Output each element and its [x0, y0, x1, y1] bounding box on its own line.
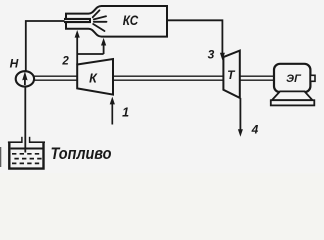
- duct arrow into chamber neck: [75, 30, 80, 65]
- svg-text:2: 2: [61, 55, 69, 67]
- generator EG body: [274, 64, 310, 92]
- shaft pump-compressor: [34, 76, 78, 80]
- fuel tank: [8, 137, 45, 169]
- duct connector: [77, 53, 103, 55]
- line chamber to turbine: [167, 20, 222, 53]
- pump N circle: [16, 71, 34, 86]
- svg-text:ЭГ: ЭГ: [286, 73, 302, 85]
- shaft turbine-generator: [240, 76, 274, 80]
- pump arrow: [22, 71, 27, 85]
- duct arrow into chamber bottom: [101, 38, 106, 54]
- svg-text:1: 1: [122, 106, 129, 120]
- fuel line pump to burner: [26, 21, 65, 72]
- shaft compressor-turbine: [113, 76, 223, 80]
- turbine T: [223, 51, 239, 98]
- svg-text:Н: Н: [10, 56, 19, 70]
- scan edge streak: [0, 147, 1, 167]
- pipe pump to tank: [24, 86, 26, 152]
- arrow 4 exhaust: [238, 98, 243, 137]
- combustion chamber KC body: [66, 6, 167, 37]
- svg-text:Топливо: Топливо: [51, 145, 112, 163]
- svg-text:К: К: [89, 72, 98, 86]
- flame rays: [93, 10, 107, 31]
- compressor K: [77, 59, 113, 95]
- burner tube: [64, 18, 91, 23]
- svg-text:3: 3: [208, 48, 215, 62]
- generator base plate: [271, 100, 315, 105]
- tank liquid: [11, 149, 44, 164]
- arrow 1 inlet: [110, 97, 115, 125]
- svg-text:КС: КС: [123, 13, 139, 28]
- generator pedestal: [272, 91, 313, 100]
- generator right stub: [310, 75, 315, 81]
- svg-text:4: 4: [251, 122, 259, 136]
- arrow 3 head: [220, 53, 225, 61]
